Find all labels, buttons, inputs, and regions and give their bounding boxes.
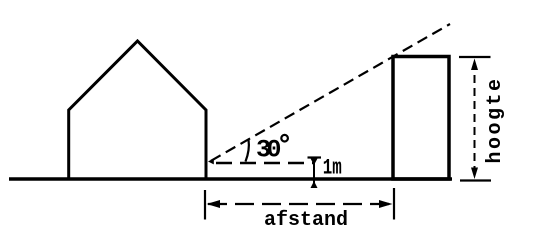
svg-text:hoogte: hoogte	[484, 76, 507, 163]
svg-text:0: 0	[267, 136, 282, 165]
svg-text:1m: 1m	[323, 155, 342, 180]
svg-text:afstand: afstand	[264, 209, 348, 232]
